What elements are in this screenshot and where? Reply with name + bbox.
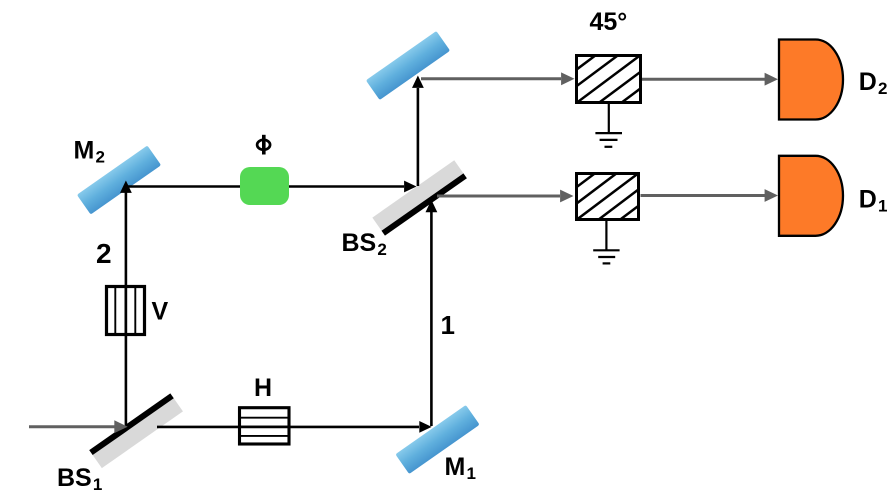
svg-text:M2: M2: [74, 137, 105, 167]
wire lower polarizer to detector D1: [641, 189, 779, 202]
wire M1 to BS2 (path 1 vertical): [426, 200, 438, 426]
polarizer 45 upper: [575, 54, 642, 104]
polarizer H: [240, 408, 290, 444]
ground (upper polarizer): [595, 103, 622, 147]
polarizer 45 lower: [575, 172, 640, 221]
wire BS1 to M2 (path 2 vertical): [120, 181, 132, 426]
svg-text:BS2: BS2: [342, 229, 387, 259]
phase shifter phi: [240, 167, 289, 205]
ground (lower polarizer): [593, 221, 619, 263]
beam splitter BS1: [89, 393, 183, 468]
wire BS2 to lower 45 polarizer: [437, 190, 574, 203]
beam splitter BS2: [372, 160, 467, 235]
svg-text:D2: D2: [859, 68, 888, 98]
wire top mirror to upper 45 polarizer: [421, 72, 575, 85]
svg-text:1: 1: [441, 310, 455, 340]
detector D1: [779, 156, 843, 236]
polarizer V: [107, 287, 145, 335]
mirror M2: [77, 146, 161, 215]
svg-text:D1: D1: [859, 185, 888, 215]
wire upper polarizer to detector D2: [642, 73, 778, 86]
svg-text:V: V: [152, 298, 169, 326]
wire BS2 to top mirror (vertical): [412, 76, 424, 187]
wire BS1 to M1 (horizontal through H): [157, 421, 432, 433]
detector D2: [779, 40, 843, 120]
top mirror: [366, 31, 450, 100]
svg-text:M1: M1: [445, 453, 476, 483]
wire M2 to BS2 (horizontal through phi): [126, 181, 417, 193]
input beam: [29, 420, 128, 433]
svg-text:2: 2: [96, 238, 112, 269]
label phi: [257, 135, 270, 155]
svg-text:45°: 45°: [590, 8, 628, 36]
mirror M1: [395, 405, 479, 474]
svg-text:BS1: BS1: [57, 464, 102, 494]
svg-text:H: H: [254, 374, 272, 402]
